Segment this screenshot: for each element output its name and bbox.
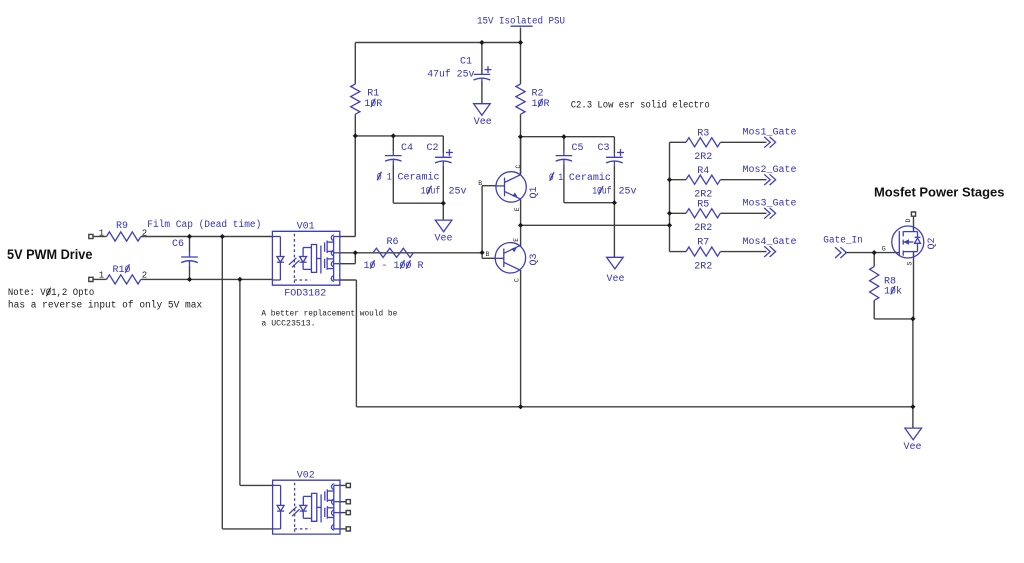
svg-text:B: B	[486, 251, 490, 258]
svg-text:C5: C5	[572, 143, 584, 154]
svg-text:25v: 25v	[449, 186, 467, 197]
svg-text:a UCC23513.: a UCC23513.	[261, 320, 315, 329]
svg-text:10R: 10R	[532, 99, 550, 110]
svg-text:G: G	[882, 246, 886, 253]
svg-text:Vee: Vee	[607, 274, 625, 285]
svg-text:R9: R9	[116, 221, 128, 232]
svg-text:47uf 25v: 47uf 25v	[427, 68, 474, 80]
svg-text:R7: R7	[697, 238, 709, 249]
svg-text:R1: R1	[367, 89, 379, 100]
svg-text:2: 2	[142, 271, 147, 281]
svg-text:A better replacement would be: A better replacement would be	[261, 308, 397, 318]
svg-text:Q2: Q2	[927, 237, 938, 249]
svg-text:FOD3182: FOD3182	[284, 289, 326, 300]
svg-text:Ceramic: Ceramic	[398, 171, 440, 183]
svg-text:15V Isolated PSU: 15V Isolated PSU	[477, 16, 565, 28]
svg-text:Ceramic: Ceramic	[569, 172, 611, 184]
svg-text:Vee: Vee	[474, 117, 492, 128]
svg-text:10uf: 10uf	[592, 186, 612, 198]
svg-text:0 1: 0 1	[549, 173, 563, 184]
svg-text:2R2: 2R2	[694, 152, 712, 163]
svg-text:C3: C3	[598, 143, 610, 154]
svg-text:R5: R5	[697, 199, 709, 210]
svg-text:R10: R10	[113, 265, 131, 276]
svg-text:Vee: Vee	[435, 234, 453, 245]
svg-text:Mos3_Gate: Mos3_Gate	[743, 199, 797, 210]
svg-text:Mos2_Gate: Mos2_Gate	[743, 165, 797, 176]
svg-text:Mos4_Gate: Mos4_Gate	[743, 237, 797, 248]
svg-text:C: C	[513, 278, 520, 282]
svg-text:10R: 10R	[364, 99, 382, 110]
svg-text:Vee: Vee	[904, 442, 922, 453]
svg-text:10k: 10k	[884, 286, 902, 298]
svg-text:2R2: 2R2	[694, 261, 712, 272]
svg-text:C: C	[515, 165, 522, 169]
svg-text:R6: R6	[387, 237, 399, 248]
svg-text:Q3: Q3	[529, 253, 540, 265]
svg-text:25v: 25v	[619, 187, 637, 198]
svg-text:1: 1	[99, 271, 104, 281]
svg-text:S: S	[907, 262, 914, 266]
svg-text:D: D	[905, 219, 912, 223]
svg-text:Mos1_Gate: Mos1_Gate	[743, 128, 797, 139]
svg-text:E: E	[514, 207, 521, 211]
svg-text:V01: V01	[297, 221, 315, 232]
svg-text:R2: R2	[532, 89, 544, 100]
svg-text:C6: C6	[172, 239, 184, 250]
svg-text:5V PWM Drive: 5V PWM Drive	[7, 246, 93, 262]
svg-text:V02: V02	[297, 470, 315, 481]
svg-text:Note: V01,2 Opto: Note: V01,2 Opto	[8, 288, 94, 299]
svg-text:C1: C1	[460, 57, 472, 68]
svg-text:10 - 100 R: 10 - 100 R	[364, 261, 424, 272]
svg-text:10uf: 10uf	[421, 185, 441, 197]
svg-text:C2: C2	[427, 143, 439, 154]
svg-text:E: E	[513, 238, 520, 242]
svg-text:C4: C4	[401, 143, 413, 154]
svg-text:has a reverse input of only 5V: has a reverse input of only 5V max	[8, 300, 202, 312]
svg-text:B: B	[478, 180, 482, 187]
svg-text:R4: R4	[697, 166, 709, 177]
svg-text:0 1: 0 1	[377, 172, 392, 183]
svg-text:2R2: 2R2	[694, 223, 712, 234]
svg-text:Film Cap (Dead time): Film Cap (Dead time)	[147, 219, 261, 231]
svg-text:C2.3 Low esr solid electro: C2.3 Low esr solid electro	[571, 99, 710, 111]
svg-text:Gate_In: Gate_In	[823, 236, 863, 247]
svg-text:Q1: Q1	[529, 186, 540, 198]
svg-text:Mosfet Power Stages: Mosfet Power Stages	[874, 185, 1005, 200]
svg-text:R3: R3	[697, 128, 709, 139]
svg-text:1: 1	[99, 229, 104, 239]
